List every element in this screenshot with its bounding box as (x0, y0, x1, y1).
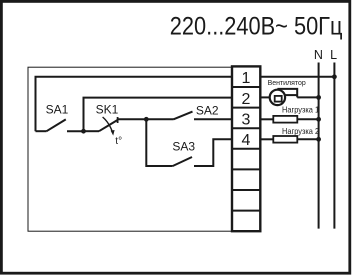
svg-text:1: 1 (242, 70, 251, 87)
node A junction (81, 129, 86, 134)
wire fan to N (297, 96, 318, 98)
wire node B down to SA3 (146, 119, 172, 166)
wire SA1 left lead (36, 130, 47, 132)
svg-text:Нагрузка 2: Нагрузка 2 (282, 127, 319, 136)
load 1 resistor (273, 116, 297, 123)
node on N (316, 95, 321, 100)
wire load 1 to N (297, 118, 318, 120)
switch SA2 (174, 112, 193, 120)
wire terminal 2 to fan (260, 96, 270, 98)
wire node B to SA2 (146, 118, 173, 120)
node B junction (144, 117, 149, 122)
wire SA1 to node A (67, 130, 84, 132)
wire SA2 to terminal 3 (194, 118, 232, 120)
svg-text:N: N (314, 48, 323, 62)
svg-text:Вентилятор: Вентилятор (268, 78, 306, 87)
load 2 resistor (273, 136, 297, 143)
wire: supply to terminal 1 (36, 77, 233, 131)
svg-text:SA2: SA2 (196, 103, 219, 117)
switch SA3 (173, 157, 192, 166)
svg-text:SA1: SA1 (46, 103, 69, 117)
node on N (316, 137, 321, 142)
svg-text:Нагрузка 1: Нагрузка 1 (282, 105, 319, 114)
svg-text:4: 4 (242, 132, 251, 149)
svg-text:L: L (330, 48, 337, 62)
wire terminal 4 to load 2 (260, 138, 273, 140)
node on L (332, 74, 337, 79)
svg-text:t°: t° (115, 136, 122, 147)
terminal block (232, 66, 260, 231)
wire SK1 to node B (118, 118, 147, 120)
wire node A to SK1 (84, 130, 100, 132)
thermal switch SK1 (96, 103, 119, 136)
N line (318, 63, 320, 229)
switch SA1 (47, 119, 66, 131)
wire load 2 to N (297, 138, 318, 140)
wire SA3 to terminal 4 (194, 139, 232, 166)
L line (333, 63, 335, 229)
wire node A to terminal 2 (84, 98, 233, 132)
svg-text:SA3: SA3 (172, 140, 195, 154)
wire terminal 3 to load 1 (260, 118, 273, 120)
wire terminal 1 to L (260, 76, 334, 78)
fan M1 (270, 89, 298, 105)
svg-text:SK1: SK1 (96, 103, 119, 117)
svg-text:3: 3 (242, 111, 251, 128)
svg-text:2: 2 (242, 91, 251, 108)
svg-text:220...240В~ 50Гц: 220...240В~ 50Гц (170, 12, 343, 40)
node on N (316, 117, 321, 122)
device enclosure box (28, 67, 232, 231)
